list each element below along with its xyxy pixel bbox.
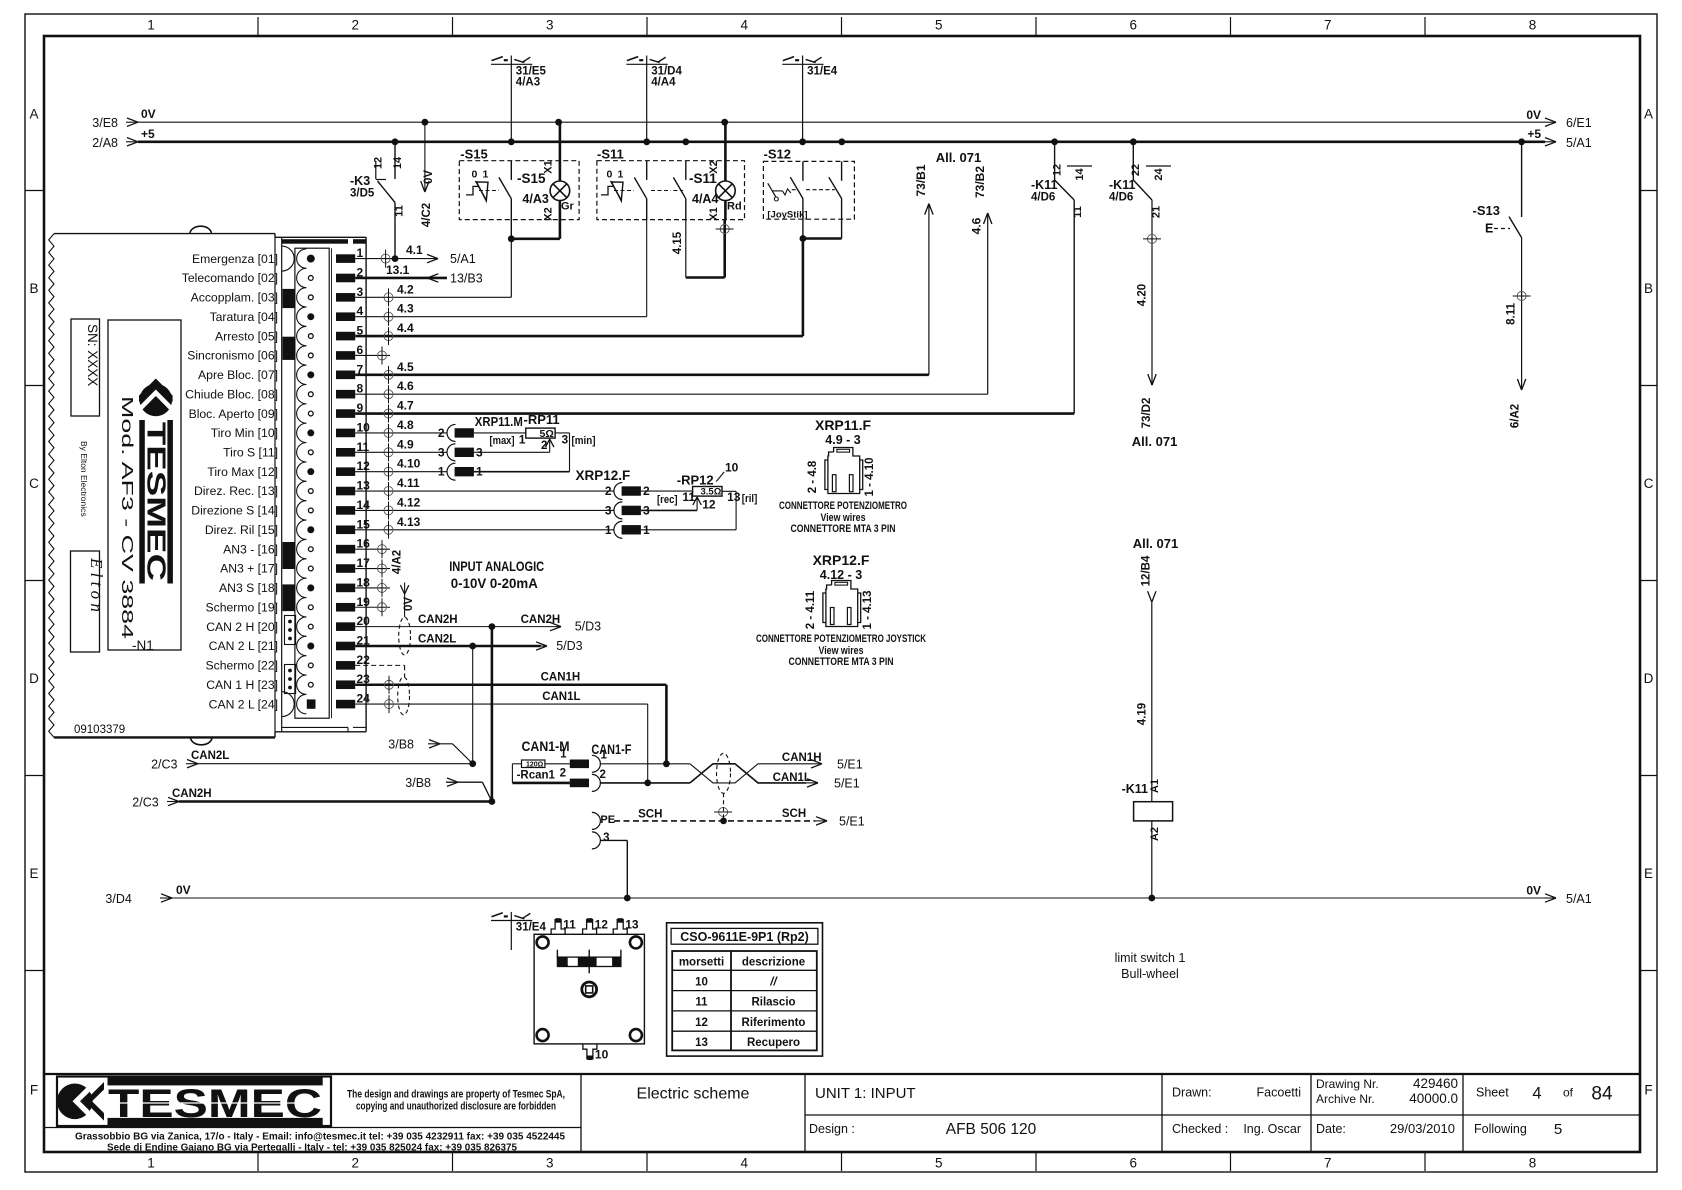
- svg-text:4: 4: [1532, 1085, 1541, 1103]
- svg-text:0V: 0V: [1526, 884, 1541, 898]
- wire CAN2H vertical to 2/C3: [491, 627, 494, 802]
- strip coding keys: [283, 289, 296, 611]
- connector CAN1-M/F pin1: [560, 749, 607, 773]
- svg-text:12: 12: [357, 459, 371, 473]
- svg-text:Rilascio: Rilascio: [751, 997, 795, 1009]
- svg-text:UNIT 1: INPUT: UNIT 1: INPUT: [815, 1085, 916, 1102]
- svg-text:X1: X1: [708, 207, 720, 220]
- terminal pin 15 Direz. Ril [15]: [205, 517, 370, 539]
- svg-text:AN3 S [18]: AN3 S [18]: [219, 581, 278, 595]
- wire 0V drop to 4/C2: [421, 122, 435, 227]
- potentiometer RP12 3.5 Ohm: [641, 461, 758, 530]
- svg-text:3/D4: 3/D4: [105, 892, 131, 906]
- svg-text:0V: 0V: [141, 107, 156, 121]
- svg-text:B: B: [29, 281, 38, 296]
- wire CAN1H to twist: [600, 763, 690, 765]
- svg-text:XRP11.F: XRP11.F: [815, 417, 871, 433]
- svg-text:Sede di Endine Gaiano BG via P: Sede di Endine Gaiano BG via Pertegalli …: [107, 1143, 517, 1154]
- svg-text:1: 1: [618, 168, 624, 180]
- connector XRP12.F: [576, 468, 651, 538]
- svg-text:descrizione: descrizione: [742, 957, 805, 969]
- svg-text:Mod. AF3 - CV 3884: Mod. AF3 - CV 3884: [118, 396, 135, 640]
- svg-text:12/B4: 12/B4: [1141, 555, 1153, 586]
- wire CAN1H pin23: [355, 672, 666, 764]
- terminal pin 17 AN3 + [17]: [220, 556, 370, 578]
- svg-text:Electric scheme: Electric scheme: [637, 1086, 750, 1103]
- svg-text:4/C2: 4/C2: [421, 203, 433, 227]
- terminal pin 20 CAN 2 H [20]: [206, 614, 370, 636]
- wire CAN1H out to 5/E1: [782, 752, 863, 772]
- svg-text:E l t o n: E l t o n: [87, 557, 106, 612]
- svg-text:0-10V 0-20mA: 0-10V 0-20mA: [451, 576, 538, 591]
- svg-text:A2: A2: [1149, 827, 1161, 841]
- wire 0V top bus: [92, 107, 1591, 130]
- drawing nr 429460: [1316, 1076, 1458, 1106]
- svg-text:CONNETTORE POTENZIOMETRO JOYST: CONNETTORE POTENZIOMETRO JOYSTICK: [756, 633, 926, 645]
- svg-text:Date:: Date:: [1316, 1122, 1346, 1136]
- svg-text:10: 10: [595, 1048, 609, 1062]
- svg-text:Chiude Bloc. [08]: Chiude Bloc. [08]: [185, 387, 278, 401]
- svg-text:CSO-9611E-9P1 (Rp2): CSO-9611E-9P1 (Rp2): [680, 930, 809, 944]
- wire +5 top bus: [92, 127, 1591, 150]
- wire CAN2L pin21 to 5/D3: [355, 634, 582, 654]
- node S12 output junction: [800, 235, 807, 242]
- svg-text:Design :: Design :: [809, 1122, 855, 1136]
- svg-text:4.5: 4.5: [397, 360, 414, 374]
- svg-text:[min]: [min]: [572, 435, 596, 447]
- svg-text:18: 18: [357, 575, 371, 589]
- svg-text:-S12: -S12: [764, 147, 791, 162]
- svg-text:0V: 0V: [423, 170, 435, 184]
- svg-text:73/B1: 73/B1: [914, 164, 928, 196]
- svg-text:B: B: [1644, 281, 1653, 296]
- wire shield pin22 dashed: [355, 665, 404, 677]
- node 0V junction 4/C2 drop: [422, 119, 429, 126]
- svg-text:5/E1: 5/E1: [834, 776, 860, 790]
- svg-text:8: 8: [1529, 18, 1537, 33]
- svg-text:Sincronismo [06]: Sincronismo [06]: [187, 349, 278, 363]
- svg-text:4/A3: 4/A3: [516, 77, 540, 89]
- svg-text:CONNETTORE MTA 3 PIN: CONNETTORE MTA 3 PIN: [789, 656, 894, 668]
- svg-text:1: 1: [560, 749, 567, 761]
- svg-text:5/D3: 5/D3: [556, 639, 582, 653]
- svg-text:CAN2H: CAN2H: [172, 788, 212, 800]
- svg-text:Emergenza [01]: Emergenza [01]: [192, 252, 278, 266]
- wire 13.1 pin2 from 13/B3: [355, 263, 483, 286]
- terminal pin 22 Schermo [22]: [206, 653, 371, 675]
- svg-text:3: 3: [438, 445, 445, 459]
- wire pin17 stub: [355, 560, 390, 578]
- svg-text:CAN1L: CAN1L: [773, 772, 811, 784]
- svg-text:13: 13: [357, 479, 371, 493]
- terminal pin 5 Arresto [05]: [215, 324, 364, 346]
- svg-text:11: 11: [682, 490, 695, 504]
- terminator Rcan1 120 Ohm: [512, 739, 631, 783]
- svg-text:Bull-wheel: Bull-wheel: [1121, 967, 1179, 981]
- svg-text:SN: XXXX: SN: XXXX: [85, 324, 100, 386]
- svg-text:Schermo [22]: Schermo [22]: [206, 659, 278, 673]
- node +5 junction x=802.6: [799, 138, 806, 145]
- svg-text:Riferimento: Riferimento: [742, 1017, 806, 1029]
- switch S13 E-stop to 6/A2: [1473, 142, 1531, 428]
- svg-text:All. 071: All. 071: [1132, 434, 1178, 449]
- svg-text:15: 15: [357, 517, 371, 531]
- svg-text:13: 13: [625, 918, 639, 932]
- svg-text:24: 24: [1153, 168, 1165, 181]
- limit switch ref 31/E4: [782, 56, 837, 142]
- svg-text:8.11: 8.11: [1506, 303, 1518, 325]
- svg-text:4.8: 4.8: [397, 418, 414, 432]
- module Elton script box: [71, 551, 107, 652]
- svg-text:E: E: [1644, 866, 1653, 881]
- svg-text:0V: 0V: [403, 597, 415, 611]
- node CAN1H junction: [663, 760, 670, 767]
- terminal pin 13 Direz. Rec. [13]: [194, 479, 370, 501]
- svg-text:4: 4: [357, 304, 364, 318]
- svg-text:XRP11.M: XRP11.M: [475, 415, 523, 429]
- wire CAN2L vertical to 2/C3: [472, 646, 474, 764]
- wire 4.11 pin13 to XRP12.F: [355, 476, 614, 500]
- terminal pin 3 Accopplam. [03]: [191, 285, 364, 307]
- svg-text:5/E1: 5/E1: [837, 757, 863, 771]
- svg-text:C: C: [29, 476, 39, 491]
- svg-text:09103379: 09103379: [74, 724, 125, 736]
- svg-text:X2: X2: [708, 160, 720, 173]
- svg-text:Direzione S [14]: Direzione S [14]: [191, 504, 278, 518]
- svg-text:4/A4: 4/A4: [692, 192, 718, 206]
- svg-text:2/C3: 2/C3: [132, 796, 158, 810]
- svg-text:-K3: -K3: [350, 174, 370, 188]
- svg-text:CAN 1 H [23]: CAN 1 H [23]: [206, 678, 278, 692]
- svg-text:13/B3: 13/B3: [450, 271, 483, 285]
- node +5 junction x=395: [392, 138, 399, 145]
- wire 4.13 pin15 to XRP12.F: [355, 515, 614, 539]
- wire pin6 stub: [355, 346, 390, 364]
- relay contact K3 3/D5: [350, 142, 406, 259]
- svg-text:AN3 - [16]: AN3 - [16]: [223, 542, 278, 556]
- svg-text:CAN 2 L [21]: CAN 2 L [21]: [209, 639, 278, 653]
- selector switch S11 with lamp: [597, 122, 745, 221]
- terminal pin 9 Bloc. Aperto [09]: [189, 401, 364, 423]
- svg-text:TESMEC: TESMEC: [142, 422, 172, 581]
- wire 4.7 pin9 to K11 contact: [355, 200, 1074, 423]
- svg-text:4.9: 4.9: [397, 437, 414, 451]
- svg-text:40000.0: 40000.0: [1409, 1091, 1458, 1106]
- svg-text:0V: 0V: [1526, 108, 1541, 122]
- svg-text:AN3 + [17]: AN3 + [17]: [220, 562, 278, 576]
- svg-text:1: 1: [519, 433, 526, 447]
- svg-text:5/A1: 5/A1: [1566, 892, 1592, 906]
- cable marker CAN1 pair: [398, 677, 410, 715]
- wire 4.9 pin11 to XRP11.M: [355, 437, 447, 461]
- svg-text:Drawing Nr.: Drawing Nr.: [1316, 1077, 1379, 1091]
- limit switch ref 31/E4 bottom: [491, 912, 546, 950]
- svg-text:-K11: -K11: [1031, 178, 1057, 192]
- svg-text:PE: PE: [600, 814, 615, 826]
- strip mini connector rows 20-21: [285, 616, 296, 645]
- svg-text:Direz. Ril [15]: Direz. Ril [15]: [205, 523, 278, 537]
- svg-text:17: 17: [357, 556, 371, 570]
- twisted pair with cable marker: [690, 753, 810, 793]
- svg-text:73/D2: 73/D2: [1141, 398, 1153, 429]
- terminal pin 8 Chiude Bloc. [08]: [185, 382, 363, 404]
- svg-text:TESMEC: TESMEC: [108, 1082, 322, 1126]
- svg-text:5/E1: 5/E1: [839, 814, 865, 828]
- svg-text:All. 071: All. 071: [936, 150, 982, 165]
- svg-text:14: 14: [392, 156, 404, 169]
- svg-text:3: 3: [603, 832, 609, 844]
- svg-text:-RP11: -RP11: [524, 412, 560, 427]
- wire 3/B8 second: [405, 776, 492, 802]
- svg-text:-RP12: -RP12: [677, 472, 714, 487]
- svg-text:Schermo [19]: Schermo [19]: [206, 600, 278, 614]
- svg-text:19: 19: [357, 595, 371, 609]
- svg-text:84: 84: [1591, 1084, 1613, 1105]
- terminal pin 12 Tiro Max [12]: [207, 459, 370, 481]
- svg-text:limit switch 1: limit switch 1: [1115, 951, 1186, 965]
- svg-text:0V: 0V: [176, 883, 191, 897]
- node CAN2L junction: [469, 643, 476, 650]
- svg-text:-K11: -K11: [1109, 178, 1135, 192]
- svg-text:6: 6: [1129, 18, 1137, 33]
- svg-text:6/A2: 6/A2: [1510, 404, 1522, 428]
- svg-text:12: 12: [595, 918, 609, 932]
- terminal pin 2 Telecomando [02]: [182, 265, 364, 287]
- svg-text:copying and unauthorized discl: copying and unauthorized disclosure are …: [356, 1101, 556, 1113]
- svg-text:11: 11: [357, 440, 370, 454]
- svg-text:31/E4: 31/E4: [516, 922, 547, 934]
- svg-text:8: 8: [1529, 1156, 1537, 1171]
- svg-text:1: 1: [357, 246, 364, 260]
- svg-text:CAN 2 H [20]: CAN 2 H [20]: [206, 620, 278, 634]
- wire 3/B8 first: [388, 737, 472, 763]
- svg-text:CAN2L: CAN2L: [191, 750, 229, 762]
- svg-text:E: E: [29, 866, 38, 881]
- module N1 Mod. AF3 - CV 3884: [49, 226, 366, 745]
- svg-text:5: 5: [935, 18, 943, 33]
- svg-text:1 - 4.13: 1 - 4.13: [862, 591, 874, 630]
- svg-text:20: 20: [357, 614, 371, 628]
- connector pin 3 to 0V: [592, 832, 627, 898]
- svg-text:Sheet: Sheet: [1476, 1086, 1509, 1100]
- svg-text:SCH: SCH: [638, 809, 662, 821]
- label limit switch 1 Bull-wheel: [1115, 951, 1186, 981]
- svg-text:Tiro Min [10]: Tiro Min [10]: [211, 426, 278, 440]
- svg-text:16: 16: [357, 537, 371, 551]
- svg-text:3: 3: [357, 285, 364, 299]
- wire 4.1 pin1 to 5/A1: [355, 243, 476, 268]
- terminal pin 16 AN3 - [16]: [223, 537, 370, 559]
- node +5 junction x=1521.6: [1518, 138, 1525, 145]
- svg-text:11: 11: [1072, 206, 1084, 218]
- wire 4.6 pin8 to 73/B2: [355, 166, 992, 404]
- svg-text:4: 4: [740, 1156, 748, 1171]
- svg-text:12: 12: [373, 157, 385, 169]
- following 5: [1474, 1121, 1562, 1138]
- node +5 junction x=1133.3: [1130, 138, 1137, 145]
- connector CAN1-M/F pin2: [560, 768, 606, 792]
- limit switch ref 31/D4 4/A4: [626, 56, 682, 142]
- svg-text:Archive Nr.: Archive Nr.: [1316, 1092, 1375, 1106]
- svg-text:All. 071: All. 071: [1133, 536, 1179, 551]
- terminal pin 23 CAN 1 H [23]: [206, 672, 370, 694]
- svg-text:2: 2: [605, 484, 612, 498]
- svg-text:11: 11: [695, 997, 708, 1009]
- node 0V junction S11 lamp: [721, 119, 728, 126]
- svg-text:+5: +5: [1527, 127, 1541, 141]
- svg-text:13.1: 13.1: [386, 263, 410, 277]
- svg-text:4.13: 4.13: [397, 515, 421, 529]
- wire CAN2L from 2/C3: [151, 750, 473, 772]
- svg-text:Recupero: Recupero: [747, 1037, 800, 1049]
- svg-text:5: 5: [1554, 1121, 1562, 1138]
- svg-text:3: 3: [546, 1156, 554, 1171]
- module label box Mod. AF3 - CV 3884: [108, 320, 181, 650]
- terminal pin 10 Tiro Min [10]: [211, 420, 370, 442]
- node CAN2L/2C3/3B8 junction: [469, 760, 476, 767]
- svg-text:By Elton Electronics: By Elton Electronics: [79, 441, 89, 517]
- cable 4/A2 marker: [391, 550, 415, 655]
- svg-text:3: 3: [546, 18, 554, 33]
- svg-text:C: C: [1644, 476, 1654, 491]
- svg-text:of: of: [1563, 1086, 1574, 1100]
- wire CAN1L pin24: [355, 691, 648, 783]
- wire 4.2 pin3 to S15: [355, 282, 511, 306]
- svg-text:7: 7: [1324, 1156, 1332, 1171]
- svg-text:24: 24: [357, 692, 371, 706]
- svg-text:0: 0: [472, 168, 478, 180]
- svg-text:3: 3: [605, 503, 612, 517]
- svg-text:Direz. Rec. [13]: Direz. Rec. [13]: [194, 484, 278, 498]
- svg-text:CONNETTORE MTA 3 PIN: CONNETTORE MTA 3 PIN: [791, 523, 896, 535]
- svg-text:5Ω: 5Ω: [540, 428, 554, 440]
- svg-text:3/B8: 3/B8: [388, 737, 414, 751]
- svg-text:Grassobbio BG via Zanica, 17: Grassobbio BG via Zanica, 17/o - Italy -…: [75, 1132, 565, 1143]
- svg-text:CAN2L: CAN2L: [418, 634, 456, 646]
- wire 4.19 from 12/B4 to K11 coil: [1133, 536, 1179, 802]
- svg-text:5/A1: 5/A1: [450, 252, 476, 266]
- svg-text:D: D: [1644, 671, 1654, 686]
- relay contact K11 4/D6 (22-21) to 73/D2: [1109, 142, 1177, 449]
- svg-text:CAN2H: CAN2H: [418, 614, 458, 626]
- node +5 junction x=646.7: [643, 138, 650, 145]
- svg-text:4.11: 4.11: [397, 476, 420, 490]
- node CAN2H/2C3/3B8 junction: [489, 798, 496, 805]
- svg-text:Gr: Gr: [561, 201, 575, 213]
- svg-text:-N1: -N1: [132, 638, 154, 653]
- svg-text:Ing. Oscar: Ing. Oscar: [1243, 1122, 1301, 1136]
- svg-text:Drawn:: Drawn:: [1172, 1086, 1212, 1100]
- node +5 junction x=685.8: [682, 138, 689, 145]
- svg-text:6/E1: 6/E1: [1566, 116, 1592, 130]
- svg-text:E: E: [1485, 222, 1493, 236]
- connector drawing XRP12.F MTA 3 pin joystick: [756, 552, 926, 668]
- svg-text:3: 3: [562, 433, 569, 447]
- date 29/03/2010: [1316, 1121, 1455, 1136]
- joystick switch S12: [763, 147, 854, 239]
- wire 4.8 pin10 to XRP11.M: [355, 418, 447, 442]
- node +5 junction x=841.8: [838, 138, 845, 145]
- wire CAN1L out to 5/E1: [773, 772, 860, 791]
- svg-text:2: 2: [351, 18, 359, 33]
- svg-text:1: 1: [147, 18, 155, 33]
- svg-text:4/D6: 4/D6: [1031, 192, 1055, 204]
- svg-text:INPUT ANALOGIC: INPUT ANALOGIC: [449, 559, 544, 574]
- svg-text:-S15: -S15: [460, 147, 487, 162]
- svg-text:+5: +5: [141, 127, 155, 141]
- wire 4.3 pin4 to S11: [355, 220, 647, 326]
- svg-text:X2: X2: [543, 207, 555, 220]
- svg-text:F: F: [1644, 1082, 1652, 1097]
- module serial box SN: XXXX: [71, 319, 100, 416]
- module TESMEC vertical logo: [139, 379, 173, 584]
- svg-text:4.3: 4.3: [397, 302, 414, 316]
- svg-text:2/A8: 2/A8: [92, 136, 118, 150]
- svg-text:Apre Bloc. [07]: Apre Bloc. [07]: [198, 368, 278, 382]
- table CSO-9611E-9P1 (Rp2): [667, 923, 823, 1056]
- wire S11 lamp to contact: [672, 220, 734, 278]
- terminal pin 6 Sincronismo [06]: [187, 343, 363, 365]
- svg-text:AFB 506 120: AFB 506 120: [946, 1121, 1037, 1138]
- svg-text:12: 12: [702, 498, 716, 512]
- terminal pin 7 Apre Bloc. [07]: [198, 362, 363, 384]
- wire 0V bottom rail: [105, 883, 1591, 906]
- svg-text:120Ω: 120Ω: [526, 762, 544, 769]
- svg-text:CAN 2 L [24]: CAN 2 L [24]: [209, 697, 278, 711]
- svg-text:4/A4: 4/A4: [651, 77, 676, 89]
- Tesmec logo: [57, 1077, 331, 1127]
- node CAN1L junction: [644, 780, 651, 787]
- svg-text:Arresto [05]: Arresto [05]: [215, 329, 278, 343]
- svg-text:SCH: SCH: [782, 808, 806, 820]
- svg-text:CAN1H: CAN1H: [541, 672, 581, 684]
- connector PE pin with shield wire SCH: [592, 793, 865, 829]
- svg-text:Bloc. Aperto [09]: Bloc. Aperto [09]: [189, 407, 278, 421]
- svg-text:1: 1: [483, 168, 489, 180]
- svg-text:The design and drawings are pr: The design and drawings are property of …: [347, 1089, 565, 1101]
- wire pin16 stub: [355, 540, 390, 558]
- svg-text:-K11: -K11: [1122, 782, 1148, 796]
- svg-text:4.1: 4.1: [406, 243, 423, 257]
- svg-text:-S11: -S11: [597, 147, 624, 162]
- terminal pin 1 Emergenza [01]: [192, 246, 364, 271]
- node pin1/K3 junction: [392, 255, 399, 262]
- svg-text:4/A3: 4/A3: [522, 192, 548, 206]
- svg-text:2 - 4.11: 2 - 4.11: [805, 590, 817, 629]
- svg-text:4.9 - 3: 4.9 - 3: [825, 433, 860, 447]
- svg-text:31/E4: 31/E4: [807, 66, 838, 78]
- wire CAN1L to twist: [600, 782, 690, 784]
- svg-text:4.7: 4.7: [397, 399, 414, 413]
- svg-text:4.6: 4.6: [397, 379, 414, 393]
- title block: [44, 1074, 1640, 1152]
- node +5 junction x=1054.6: [1051, 138, 1058, 145]
- svg-text:10: 10: [357, 420, 371, 434]
- node 0V / K11 coil A2: [1148, 895, 1155, 902]
- svg-text:11: 11: [394, 205, 406, 217]
- svg-text:429460: 429460: [1413, 1076, 1458, 1091]
- svg-text:CAN1L: CAN1L: [542, 691, 580, 703]
- svg-text:73/B2: 73/B2: [973, 166, 987, 198]
- strip mini connector rows 22-23: [285, 665, 296, 694]
- connector terminal strip of N1: [282, 237, 366, 732]
- wire CAN2H pin20 to 5/D3: [355, 614, 601, 634]
- svg-text:2/C3: 2/C3: [151, 758, 177, 772]
- svg-text:Telecomando [02]: Telecomando [02]: [182, 271, 278, 285]
- svg-text:D: D: [29, 671, 39, 686]
- selector switch S15 with lamp: [459, 122, 579, 297]
- svg-text:6: 6: [357, 343, 364, 357]
